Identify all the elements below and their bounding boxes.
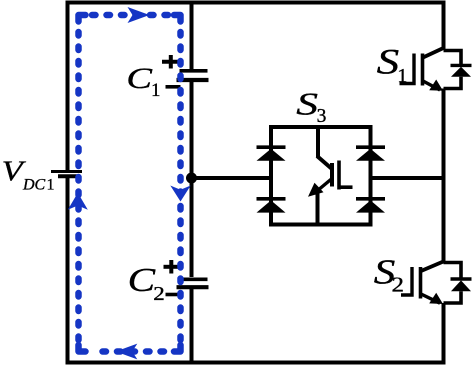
blue arrow left (bottom of loop) [116,344,138,360]
svg-text:C: C [128,261,156,299]
svg-text:3: 3 [317,106,327,127]
diode D2 (S3 bottom-left) [257,199,286,213]
svg-text:DC: DC [22,177,46,194]
node A junction dot [186,173,197,184]
svg-text:S: S [296,87,318,122]
label C1 [126,62,160,101]
blue arrow down (right of loop) [170,186,190,202]
diode D6 (across S2) [444,263,472,304]
svg-text:S: S [377,42,400,81]
label V_DC1 [2,155,55,193]
svg-text:1: 1 [397,65,407,87]
wire blue loop bottom segment [92,348,164,355]
wire top rail [66,1,446,5]
wire middle leg upper (top rail to C1) [190,1,194,70]
wire blue loop corner bottom-left [79,345,86,352]
svg-text:2: 2 [392,272,405,296]
label S3 [296,87,326,127]
diode D5 (across S1) [444,51,472,89]
svg-text:1: 1 [151,80,161,101]
IGBT S1 [400,48,445,91]
wire right rail lower (S2 emitter to bottom rail) [442,303,446,365]
wire left rail lower (from V_DC1) [66,178,70,365]
wire left rail upper (to V_DC1) [66,1,70,171]
label C2 [128,261,165,304]
wire blue loop right segment [177,32,184,344]
C2 minus sign [166,293,181,297]
capacitor C1 [177,71,209,80]
switch S3 bridge frame [271,127,371,225]
wire bottom rail [66,361,446,365]
wire right rail middle (S1 emitter to S2 collector) [442,89,446,264]
voltage source V_DC1 [51,172,82,177]
wire middle leg lower (C2 to bottom rail) [190,289,194,365]
label S2 [374,253,404,296]
capacitor C2 [177,279,209,287]
diode D3 (S3 top-right) [356,147,385,161]
wire node A to S3 left terminal [192,176,272,180]
blue arrow up (left of loop) [68,193,88,210]
wire blue loop corner top-left [79,15,86,22]
wire S3 right terminal to right rail [371,176,444,180]
wire middle leg mid (C1 to node A) [190,82,194,277]
blue arrow right (top of loop) [128,7,150,23]
wire right rail upper (top rail to S1 collector) [442,1,446,51]
wire blue loop corner top-right [174,15,181,22]
svg-text:2: 2 [153,282,165,304]
svg-text:C: C [126,62,153,95]
IGBT Q3 (inside S3) [308,125,353,227]
IGBT S2 [401,261,445,304]
diode D4 (S3 bottom-right) [356,199,385,213]
wire blue loop corner bottom-right [174,345,181,352]
C1 minus sign [166,85,181,89]
current loop blue dashed path [79,15,181,352]
wire blue loop left segment [75,32,82,344]
svg-text:1: 1 [47,177,55,194]
C1 plus sign [162,55,180,69]
C2 plus sign [164,260,180,274]
label S1 [377,42,408,87]
diode D1 (S3 top-left) [257,147,286,161]
wire blue loop top segment [92,12,168,19]
